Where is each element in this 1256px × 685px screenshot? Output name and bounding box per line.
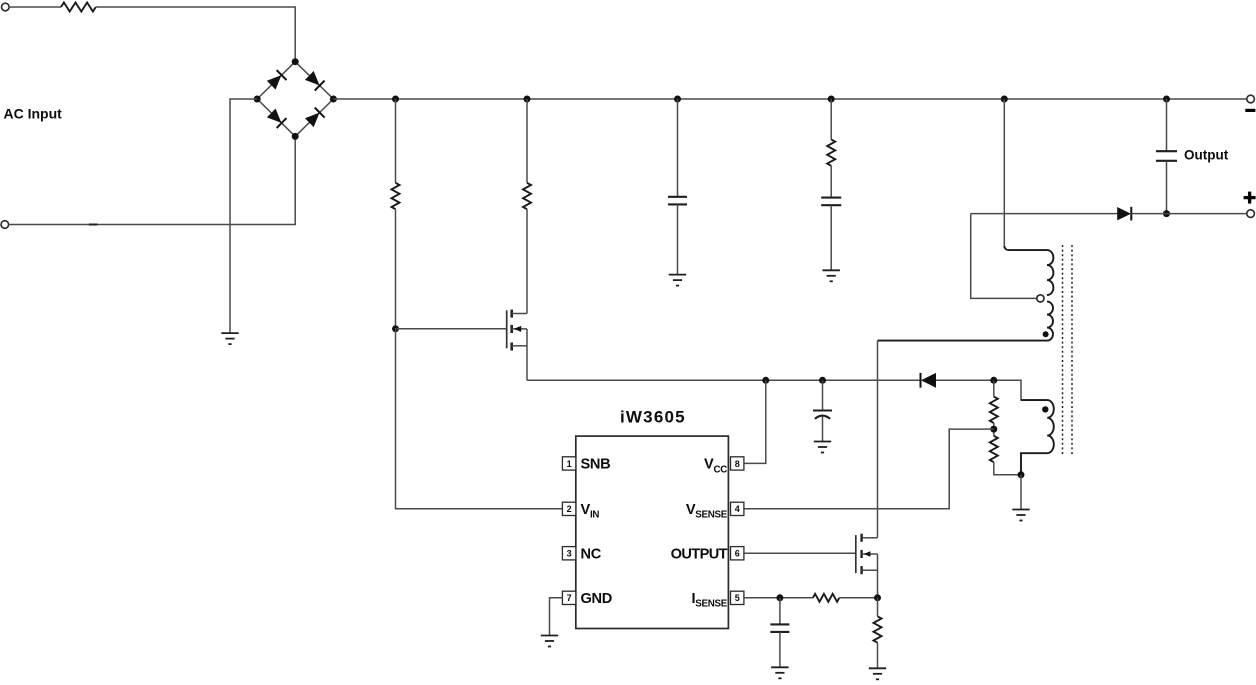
wire Q2 source vertical	[877, 554, 879, 598]
wire	[936, 380, 1047, 400]
node divider mid	[990, 426, 997, 433]
transformer primary winding lower	[878, 302, 1054, 341]
svg-text:iW3605: iW3605	[620, 407, 686, 426]
ground G8	[869, 668, 886, 679]
wire VSENSE feedback	[744, 429, 994, 509]
wire	[779, 632, 781, 667]
node rail R3	[828, 96, 835, 103]
node aux ground	[1018, 471, 1025, 478]
wire	[822, 416, 824, 441]
MOSFET Q1 gate lead	[396, 328, 507, 330]
wire	[779, 598, 781, 625]
terminal AC input top	[2, 3, 10, 11]
wire	[877, 598, 879, 617]
bridge rectifier edges	[257, 62, 333, 137]
pin 8 box	[731, 457, 744, 470]
node divider top	[990, 377, 997, 384]
wire	[1020, 475, 1022, 510]
node rail primary	[1001, 96, 1008, 103]
ground G4	[814, 442, 831, 453]
bridge diode D1 (left-top edge)	[266, 70, 286, 90]
wire	[839, 597, 877, 599]
capacitor C6	[821, 198, 841, 206]
wire DC bus rail	[333, 98, 1246, 100]
svg-text:Output: Output	[1184, 148, 1229, 163]
bridge diode D2 (top-right edge)	[304, 70, 324, 90]
wire	[1166, 161, 1168, 214]
wire plus rail	[971, 213, 1117, 215]
wire OUTPUT pin to Q2 gate	[744, 552, 856, 554]
wire	[993, 380, 995, 396]
wire	[822, 380, 824, 410]
wire	[9, 6, 61, 8]
wire	[677, 204, 679, 274]
wire to Q1 drain	[526, 209, 528, 313]
pin 5 box	[731, 591, 744, 604]
terminal tap circle	[1037, 295, 1044, 302]
resistor R7	[813, 594, 839, 602]
core line 1	[1062, 245, 1064, 455]
node output plus rail	[1163, 210, 1170, 217]
wire ISENSE pin	[744, 597, 813, 599]
pin 1 box	[562, 457, 575, 470]
resistor R2	[523, 183, 531, 209]
wire	[877, 643, 879, 669]
capacitor C4 output	[1156, 151, 1177, 161]
svg-text:NC: NC	[581, 547, 602, 563]
wire Q1 source vertical	[526, 329, 528, 380]
svg-text:8: 8	[735, 459, 740, 469]
ground G2	[669, 275, 686, 286]
transformer primary winding upper	[1004, 246, 1053, 295]
terminal output plus	[1247, 210, 1255, 218]
wire	[830, 166, 832, 198]
pin 3 box	[562, 547, 575, 560]
pin 2 box	[562, 502, 575, 515]
bridge diode D4 (bottom-right edge)	[304, 108, 324, 128]
wire	[1166, 99, 1168, 151]
wire to bridge top	[96, 7, 295, 62]
wire to VCC pin	[744, 380, 766, 463]
ground G7	[771, 667, 788, 678]
node ISENSE	[776, 594, 783, 601]
label minus	[1245, 109, 1255, 112]
wire dash mark	[89, 224, 98, 226]
svg-text:OUTPUT: OUTPUT	[671, 547, 728, 563]
MOSFET Q1	[507, 310, 527, 351]
wire to VIN pin	[396, 329, 563, 509]
IC U1 iW3605 box	[576, 436, 729, 628]
ground G1	[221, 333, 238, 344]
bridge diode D3 (left-bottom edge)	[266, 108, 286, 128]
ground G5	[541, 636, 558, 647]
node bridge bottom	[292, 133, 299, 140]
capacitor C5	[770, 624, 789, 632]
resistor R3	[827, 139, 835, 165]
node VCC branch	[762, 377, 769, 384]
polarity dot primary	[1043, 331, 1049, 337]
wire	[830, 99, 832, 139]
node rail R2	[524, 96, 531, 103]
node bridge left	[254, 96, 261, 103]
wire	[993, 423, 995, 436]
pin 6 box	[731, 547, 744, 560]
resistor R1	[392, 183, 400, 209]
pin 4 box	[731, 502, 744, 515]
svg-text:6: 6	[735, 549, 740, 559]
transformer aux winding	[1021, 400, 1054, 475]
wire plus corner to tap	[971, 214, 1037, 299]
wire bridge left to ground	[230, 99, 257, 333]
polarity dot aux	[1042, 406, 1048, 412]
node bridge top	[292, 58, 299, 65]
wire	[677, 99, 679, 197]
diode D6 output	[1117, 207, 1131, 221]
wire	[395, 209, 397, 329]
pin 7 box	[562, 591, 575, 604]
svg-text:2: 2	[567, 504, 572, 514]
node gate junction	[392, 325, 399, 332]
wire	[395, 99, 397, 183]
resistor R5	[990, 397, 998, 423]
MOSFET Q2	[856, 534, 878, 575]
node rail C1	[674, 96, 681, 103]
wire	[526, 99, 528, 183]
diode D5	[921, 373, 937, 388]
wire bus to primary top	[1003, 99, 1005, 246]
wire	[994, 462, 1021, 475]
wire to bridge bottom	[9, 136, 296, 224]
ground G3	[823, 270, 840, 281]
svg-text:GND: GND	[581, 591, 613, 607]
svg-text:AC Input: AC Input	[4, 106, 63, 122]
node Q2 source	[874, 594, 881, 601]
capacitor C1	[668, 197, 687, 205]
node rail R1	[392, 96, 399, 103]
core line 2	[1071, 245, 1073, 455]
wire primary bottom to Q2 drain	[877, 341, 879, 538]
wire GND pin to ground	[550, 598, 563, 636]
svg-text:4: 4	[735, 504, 740, 514]
svg-text:SNB: SNB	[581, 457, 611, 473]
ground G6	[1012, 510, 1029, 521]
terminal AC input bottom	[1, 221, 9, 229]
fuse resistor	[61, 3, 96, 12]
node C2 branch	[819, 377, 826, 384]
resistor R6	[990, 436, 998, 462]
wire	[830, 205, 832, 270]
svg-text:7: 7	[567, 593, 572, 603]
svg-text:1: 1	[567, 459, 572, 469]
capacitor C2 polarized	[813, 411, 832, 419]
terminal output minus	[1247, 95, 1255, 103]
svg-text:5: 5	[735, 593, 740, 603]
resistor R8	[874, 616, 882, 642]
wire source rail	[527, 379, 921, 381]
node rail output cap	[1163, 96, 1170, 103]
label plus	[1244, 192, 1256, 204]
svg-text:3: 3	[567, 549, 572, 559]
node bridge right	[330, 96, 337, 103]
wire	[1131, 213, 1246, 215]
